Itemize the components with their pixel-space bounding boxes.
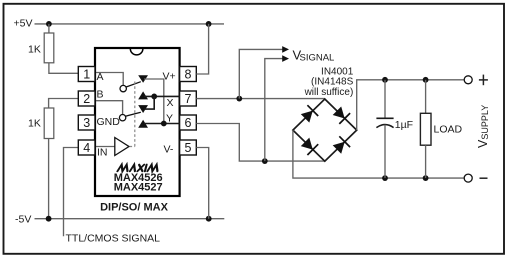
pin 3 box xyxy=(78,115,95,130)
pin 1 box xyxy=(78,67,95,82)
wire -5V rail xyxy=(35,218,225,220)
svg-text:5: 5 xyxy=(185,141,192,155)
svg-text:1K: 1K xyxy=(28,118,41,130)
wire bridge right to + rail xyxy=(357,80,464,130)
wire TTL/CMOS input to pin 4 xyxy=(64,148,79,237)
switch contact NO1 (to Y) xyxy=(138,75,148,83)
wire Y line xyxy=(144,123,180,125)
svg-text:7: 7 xyxy=(185,92,192,106)
node junction Y / Vsignal xyxy=(262,158,268,164)
wire pin6 Y to bridge bottom xyxy=(196,124,324,162)
switch pole A xyxy=(120,85,126,91)
wire A to switch pole xyxy=(96,73,123,86)
node junction X xyxy=(151,94,157,100)
pin 6 box xyxy=(180,115,197,130)
svg-text:X: X xyxy=(167,97,174,109)
wire Vsignal arrow 2 xyxy=(265,59,283,162)
diode D4 (bottom-right) xyxy=(333,142,345,154)
Vsupply label xyxy=(476,105,490,148)
svg-text:4: 4 xyxy=(83,141,90,155)
pin 7 box xyxy=(180,91,197,106)
node junction -5V / R2 xyxy=(46,216,52,222)
wire contact1 to Y node xyxy=(144,79,164,124)
wire +5V rail xyxy=(35,23,225,25)
wire B to switch pole xyxy=(96,101,123,115)
svg-text:V-: V- xyxy=(164,144,174,156)
node junction +5V / R1 xyxy=(46,21,52,27)
svg-text:1µF: 1µF xyxy=(395,119,413,131)
resistor R1 1K xyxy=(48,24,50,33)
svg-text:8: 8 xyxy=(185,68,192,82)
IC U1 MAX4526/MAX4527 body xyxy=(95,48,180,196)
diode D2 (top-right) xyxy=(333,107,345,119)
terminal + xyxy=(464,76,472,84)
pin 5 box xyxy=(180,140,197,155)
svg-text:IN: IN xyxy=(97,147,108,159)
node junction X / Vsignal xyxy=(236,96,242,102)
svg-text:2: 2 xyxy=(83,92,90,106)
load RL xyxy=(425,80,427,114)
node junction -5V / pin5 xyxy=(206,216,212,222)
svg-text:TTL/CMOS SIGNAL: TTL/CMOS SIGNAL xyxy=(66,233,161,245)
wire Vsignal arrow 1 xyxy=(239,49,282,98)
svg-text:SUPPLY: SUPPLY xyxy=(480,105,490,140)
wire pin5 to -5V xyxy=(196,148,208,219)
capacitor C1 1uF xyxy=(384,80,386,118)
pin 8 box xyxy=(180,67,197,82)
node junction cap bottom xyxy=(382,175,388,181)
wire IN to buffer xyxy=(96,146,115,148)
pin 2 box xyxy=(78,91,95,106)
svg-text:-5V: -5V xyxy=(15,214,31,226)
wire X line xyxy=(144,95,180,97)
diode D1 (left-top) xyxy=(301,111,313,123)
wire pin7 X to bridge top xyxy=(196,98,324,100)
svg-text:B: B xyxy=(97,89,104,101)
svg-text:MAX4527: MAX4527 xyxy=(114,181,163,193)
terminal - xyxy=(464,174,472,182)
svg-text:LOAD: LOAD xyxy=(434,123,463,135)
svg-text:will suffice): will suffice) xyxy=(304,87,354,98)
svg-text:3: 3 xyxy=(83,116,90,130)
switch contact NC2 (to Y) xyxy=(138,120,148,128)
diode D3 (left-bottom) xyxy=(301,138,313,150)
resistor R2 1K xyxy=(49,99,79,109)
svg-text:6: 6 xyxy=(185,116,192,130)
wire pin8 to +5V xyxy=(196,24,208,74)
MAXIM logo xyxy=(118,165,160,172)
svg-text:1K: 1K xyxy=(28,44,41,56)
svg-text:DIP/SO/ MAX: DIP/SO/ MAX xyxy=(100,202,169,214)
svg-text:GND: GND xyxy=(97,116,121,128)
wire X node to contact2 xyxy=(144,96,154,109)
node junction cap top xyxy=(382,77,388,83)
switch pole B xyxy=(119,115,125,121)
diode bridge outline xyxy=(293,99,357,161)
node junction load top xyxy=(423,77,429,83)
svg-text:1: 1 xyxy=(83,68,90,82)
svg-text:+5V: +5V xyxy=(14,18,33,30)
wire bridge left to - rail xyxy=(293,130,464,178)
switch contact NO2 (to X) xyxy=(138,105,148,113)
node junction load bottom xyxy=(423,175,429,181)
node junction +5V / pin8 xyxy=(206,21,212,27)
buffer driver xyxy=(115,138,129,156)
dashed control line xyxy=(130,146,135,148)
switch contact NC1 (to X) xyxy=(138,91,148,99)
node junction Y xyxy=(161,121,167,127)
pin 4 box xyxy=(78,140,95,155)
svg-text:SIGNAL: SIGNAL xyxy=(300,53,335,64)
